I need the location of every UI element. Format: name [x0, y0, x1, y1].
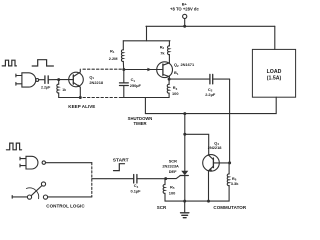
op-amp : NAND gate lower	[26, 156, 46, 169]
wire dashed emitter line Q1 to timer common	[83, 97, 119, 99]
svg-text:START: START	[113, 158, 129, 164]
svg-text:2.2M: 2.2M	[109, 56, 118, 61]
node B1 junction	[168, 78, 171, 81]
capacitor C4	[134, 175, 166, 184]
svg-text:R2: R2	[160, 44, 165, 50]
node square wave symbol lower	[6, 143, 21, 150]
wire lower gate input leads with plug ticks	[20, 157, 26, 167]
svg-text:0.1µF: 0.1µF	[131, 189, 142, 194]
svg-text:1k: 1k	[62, 88, 66, 92]
wire load bottom lead	[145, 97, 276, 113]
node Q1 base node	[57, 78, 60, 81]
wire lower gate output	[46, 162, 92, 164]
svg-text:COMMUTATOR: COMMUTATOR	[213, 205, 246, 210]
wire top supply rail	[146, 25, 275, 27]
node SCR anode rail node	[183, 112, 186, 115]
node Q2 emitter arrowhead	[147, 68, 151, 72]
load box	[252, 49, 295, 97]
node Q4 base node	[228, 161, 231, 164]
node R1/C1 junction	[122, 68, 125, 71]
op-amp : unijunction transistor Q2 body	[157, 62, 173, 79]
wire Q4 collector link	[185, 134, 209, 155]
svg-text:250µF: 250µF	[130, 83, 142, 88]
op-amp : NAND gate upper	[22, 73, 39, 87]
capacitor C2	[210, 74, 230, 84]
node Q1 emitter node	[79, 96, 82, 99]
svg-text:7k: 7k	[160, 50, 165, 55]
svg-text:100: 100	[169, 191, 176, 196]
svg-text:2N2218: 2N2218	[89, 80, 103, 85]
node Q4 emitter ground node	[207, 200, 210, 203]
node SCR cathode ground node	[183, 200, 186, 203]
wire SCR anode line	[184, 114, 186, 171]
wire commutator ground line	[165, 200, 229, 202]
switch control	[12, 182, 92, 199]
svg-text:2N1671: 2N1671	[181, 62, 195, 67]
wire drop from timer common to lower rail	[144, 98, 146, 114]
wire gate input leads with plug ticks	[16, 74, 22, 85]
wire rail right drop to load	[274, 26, 276, 49]
svg-text:R5: R5	[170, 184, 175, 190]
svg-text:2.2µF: 2.2µF	[41, 85, 51, 89]
resistor R2	[168, 41, 170, 63]
wire dashed control logic bus	[91, 163, 93, 197]
wire emitter line left	[59, 97, 81, 99]
wire rail left stub down	[146, 26, 148, 41]
svg-text:B1: B1	[174, 70, 179, 76]
resistor R5	[163, 179, 165, 202]
svg-text:DEF: DEF	[169, 169, 177, 174]
svg-text:+8 TO +28V dc: +8 TO +28V dc	[170, 7, 199, 12]
wire timer common line	[119, 97, 169, 99]
resistor R3	[167, 79, 169, 97]
ground	[181, 201, 189, 218]
wire B+ terminal to rail	[184, 19, 186, 27]
node B+ terminal	[183, 14, 187, 18]
svg-text:SCR: SCR	[157, 205, 167, 210]
node START step symbol	[114, 164, 125, 171]
wire Q1 base lead	[59, 79, 74, 81]
svg-text:2.2µF: 2.2µF	[205, 92, 216, 97]
svg-text:R1: R1	[110, 48, 115, 54]
node B+ rail junction	[183, 25, 186, 28]
svg-text:100: 100	[172, 91, 179, 96]
capacitor coupling 2.2uF	[39, 76, 59, 84]
transistor Q4	[203, 155, 230, 202]
transistor Q1	[69, 69, 84, 97]
wire tee to R1 and R2	[123, 40, 170, 42]
resistor R6	[227, 163, 229, 201]
svg-text:2N2218: 2N2218	[208, 145, 222, 150]
resistor R1	[121, 41, 123, 70]
svg-text:3.3k: 3.3k	[231, 181, 239, 186]
wire gate line with C4	[92, 178, 134, 180]
svg-text:KEEP ALIVE: KEEP ALIVE	[68, 104, 95, 109]
wire dashed collector line Q1 to R1/C1 node	[83, 68, 122, 70]
node R5 gate node	[164, 177, 167, 180]
wire C2 line from B1 node	[169, 78, 210, 80]
node square wave symbol upper	[2, 60, 16, 66]
svg-text:Q2: Q2	[174, 62, 179, 68]
wire emitter line from R1/C1 node to Q2	[124, 69, 163, 71]
svg-text:TIMER: TIMER	[133, 121, 146, 126]
svg-text:LOAD: LOAD	[267, 69, 282, 75]
svg-text:(1.5A): (1.5A)	[267, 75, 282, 81]
node Q4 collector junction	[183, 133, 186, 136]
node pulse symbol upper	[32, 60, 53, 66]
svg-text:CONTROL LOGIC: CONTROL LOGIC	[46, 204, 85, 209]
wire C2 drop to Q4 base	[229, 79, 231, 163]
thyristor SCR 2N2323A	[166, 171, 189, 201]
capacitor C1	[120, 70, 129, 98]
resistor R4 base resistor	[57, 80, 59, 98]
